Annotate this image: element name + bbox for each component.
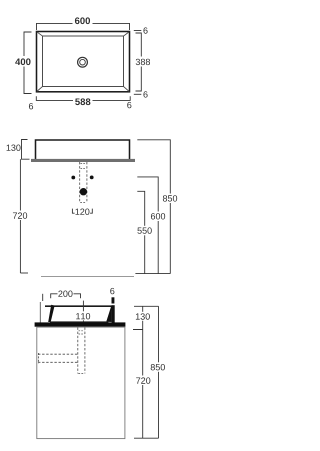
- rim width 6 bottom-right tick: [134, 93, 142, 95]
- dimension 600 bracket: [37, 23, 130, 30]
- dimension 550 line (front): [137, 191, 144, 273]
- countertop slab (grey): [31, 159, 135, 162]
- rim width 6 bottom-right label: [143, 91, 147, 97]
- rim 6 label: [110, 288, 114, 294]
- drain inner circle: [80, 59, 86, 65]
- right wall (black column): [112, 305, 115, 322]
- dimension 110 line: [82, 301, 84, 322]
- dimension 720 floor tick: [20, 272, 28, 274]
- rim 6 thickness tick (black): [112, 297, 115, 303]
- dimension 110 label: [76, 313, 90, 319]
- right wall inner fill triangle: [106, 306, 111, 322]
- dimension 600 line (front): [137, 177, 158, 274]
- dimension 200 label: [58, 291, 72, 297]
- left rim tick: [42, 294, 44, 301]
- rim width 6 bottom-right-under label: [127, 102, 131, 108]
- dimension 720 line (side): [142, 330, 144, 439]
- dimension 130 label (side): [136, 313, 150, 319]
- dimension 600 label (front): [151, 213, 165, 219]
- drain outer circle: [78, 57, 88, 67]
- shared floor tick (front dims): [135, 273, 170, 275]
- dimension 120 bracket: [72, 209, 92, 214]
- rim width 6 top-right tick: [134, 30, 142, 32]
- rim width 6 bottom-left label: [29, 103, 33, 109]
- dimension 720 label: [13, 212, 27, 218]
- dimension 850 label (side): [151, 364, 165, 370]
- rim corner chamfer top-right: [123, 32, 129, 36]
- dimension 850 line (front): [137, 140, 170, 274]
- counter slab (black): [35, 322, 126, 326]
- dimension 120 label: [75, 209, 89, 215]
- dimension 130 label: [7, 145, 21, 151]
- dimension 720 line: [19, 159, 21, 273]
- trap duct left closure: [37, 353, 39, 364]
- rim corner chamfer top-left: [37, 32, 43, 36]
- dimension 130 bracket: [22, 140, 30, 160]
- dimension 388 bracket: [136, 33, 142, 91]
- fixing hole right: [90, 176, 94, 180]
- trap duct bottom (dashed): [38, 361, 78, 363]
- waste fitting dashes side: [79, 330, 85, 332]
- pipe end dash: [80, 202, 86, 204]
- basin inner wall right diagonal: [107, 307, 112, 322]
- trap duct top (dashed): [38, 353, 78, 355]
- fixing hole left: [71, 176, 75, 180]
- dimension 550 label (front): [137, 227, 151, 233]
- waste pipe side (dashed) left: [77, 328, 79, 374]
- basin inner wall left (section): [48, 305, 54, 322]
- rim corner chamfer bottom-right: [123, 86, 129, 91]
- waste pipe side (dashed) right: [84, 328, 86, 374]
- dimension 400 label: [15, 58, 30, 65]
- rim top line: [45, 305, 113, 307]
- rim corner chamfer bottom-left: [37, 86, 43, 91]
- rim width 6 top-right label: [143, 27, 147, 33]
- dimension 850 label (front): [163, 195, 177, 201]
- dimension 588 label: [75, 98, 90, 105]
- basin body front: [36, 140, 130, 159]
- dimension 600 label: [75, 17, 90, 24]
- floor tick (side dims): [134, 437, 159, 439]
- drain outlet dot: [80, 188, 87, 195]
- floor line: [41, 276, 134, 278]
- basin inner rim rectangle: [43, 36, 124, 87]
- dimension 850 line (side): [158, 306, 160, 438]
- dimension 400 bracket: [24, 32, 32, 94]
- waste pipe front (dashed) left: [79, 162, 81, 203]
- left wall: [39, 302, 41, 323]
- waste fitting dashes: [81, 163, 87, 165]
- dimension 388 label: [136, 59, 150, 65]
- basin outer rim rectangle: [37, 32, 130, 92]
- waste pipe front (dashed) right: [86, 162, 88, 203]
- pipe bottom dash: [78, 373, 84, 375]
- dimension 130 bracket (side): [133, 306, 159, 329]
- dimension 720 label (side): [136, 377, 150, 383]
- dimension 200 bracket: [51, 294, 81, 298]
- basin floor line: [50, 321, 108, 323]
- dimension 588 bracket: [36, 96, 130, 100]
- pedestal / cabinet outline: [37, 327, 125, 439]
